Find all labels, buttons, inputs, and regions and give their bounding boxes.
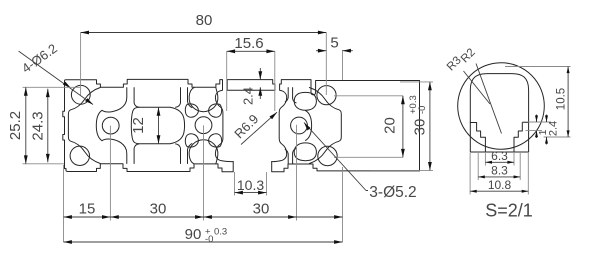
wire bottom edge: [66, 162, 420, 172]
wire cell3 big C-curve void boundary: [309, 88, 341, 164]
dimension 2.4 detail: [546, 115, 548, 145]
dimension 20: [334, 96, 405, 158]
wire hanging slit cell3 bottom pair: [285, 149, 296, 164]
svg-text:10.5: 10.5: [556, 88, 568, 110]
label R3 leader: [464, 71, 491, 104]
svg-text:2.4: 2.4: [548, 121, 560, 136]
wire hanging slit cell1.5 bottom-right: [176, 144, 192, 164]
svg-text:12: 12: [130, 117, 147, 134]
dimension 80: [81, 12, 327, 95]
node H-void cell1.5: [131, 107, 184, 143]
dimension chain 15 / 30 / 30: [64, 125, 343, 242]
detail view bubble: [445, 46, 571, 220]
wire hanging slit cell1.5 top-left: [134, 88, 139, 108]
label R2 leader: [476, 64, 502, 134]
wire right edge: [419, 81, 421, 171]
dimension 15.6: [227, 35, 275, 111]
dimension 30 +0.3/-0 vertical: [370, 82, 433, 170]
svg-text:-0: -0: [205, 234, 213, 245]
label 3-D5.2 leader: [304, 123, 417, 202]
svg-text:S=2/1: S=2/1: [485, 201, 533, 221]
wire hanging slit cell1.5 bottom-left: [134, 144, 139, 164]
node detail slot shape: [470, 74, 528, 152]
node mc2 south dome void: [189, 140, 218, 164]
svg-text:80: 80: [196, 12, 213, 29]
wire hanging slit cell3 top pair: [285, 88, 296, 103]
dimension 5: [316, 35, 353, 243]
svg-text:30: 30: [412, 119, 429, 136]
wire top edge: [65, 79, 420, 94]
wire detail slot lips and steps: [470, 123, 528, 153]
node mc2 east wedge voids: [209, 104, 222, 147]
dimension 90 +0.3/-0: [64, 226, 343, 245]
hole mc1 middle 5.2: [102, 117, 119, 134]
node mc2 north dome void: [189, 88, 218, 112]
svg-text:15: 15: [79, 201, 96, 218]
node cell2 big cavity: [215, 90, 286, 161]
svg-text:25.2: 25.2: [7, 111, 24, 140]
dimension 10.5: [505, 67, 571, 138]
svg-text:10.8: 10.8: [488, 178, 512, 192]
dimension 2.4: [241, 68, 263, 105]
svg-text:0.3: 0.3: [214, 227, 227, 238]
node detail circle: [458, 63, 545, 150]
hole C2 bottom-left 6.2: [70, 146, 89, 165]
profile outline (main extrusion cross-section): [63, 79, 420, 171]
svg-text:3-Ø5.2: 3-Ø5.2: [369, 184, 416, 201]
svg-text:15.6: 15.6: [234, 35, 263, 52]
svg-text:90: 90: [185, 226, 202, 243]
wire cell3 ring arc right of mc3: [306, 111, 312, 141]
hole C5 bottom-right 6.2: [318, 146, 337, 165]
dimension 6.3: [485, 153, 514, 166]
dimension 24.3: [30, 89, 50, 163]
svg-text:30: 30: [150, 201, 167, 218]
dimension 10.3: [235, 172, 267, 196]
svg-text:24.3: 24.3: [30, 111, 47, 140]
svg-text:20: 20: [382, 117, 399, 134]
svg-text:6.3: 6.3: [491, 149, 508, 163]
node mc2 west wedge voids: [185, 104, 198, 147]
label 4-D6.2 leader: [19, 41, 93, 105]
hole C1 top-left 6.2: [71, 85, 90, 104]
dimension 10.8: [470, 153, 528, 195]
wire cell1 ring around mc1: [96, 88, 127, 164]
hole mc2 middle 5.2: [195, 117, 212, 134]
svg-text:30: 30: [253, 201, 270, 218]
dimension 1: [522, 122, 551, 131]
hole mc3 middle 5.2: [291, 117, 308, 134]
svg-text:2.4: 2.4: [241, 87, 256, 105]
node cell3 south dome void: [294, 143, 316, 161]
hole C4 top-right 6.2: [317, 86, 336, 105]
svg-text:10.3: 10.3: [237, 177, 264, 193]
label R6.9 leader: [231, 111, 277, 144]
svg-text:-0: -0: [417, 106, 428, 114]
dimension 8.3: [478, 153, 520, 180]
wire hanging slit cell1.5 top-right: [176, 88, 192, 108]
svg-text:5: 5: [330, 35, 338, 52]
node cell3 north dome void: [294, 92, 316, 110]
wire cell1 big C-curve void boundary: [68, 88, 100, 164]
dimension 12: [130, 107, 160, 143]
dimension 25.2: [7, 87, 80, 164]
svg-text:8.3: 8.3: [491, 164, 508, 178]
wire left edge with two small jogs: [63, 82, 66, 169]
